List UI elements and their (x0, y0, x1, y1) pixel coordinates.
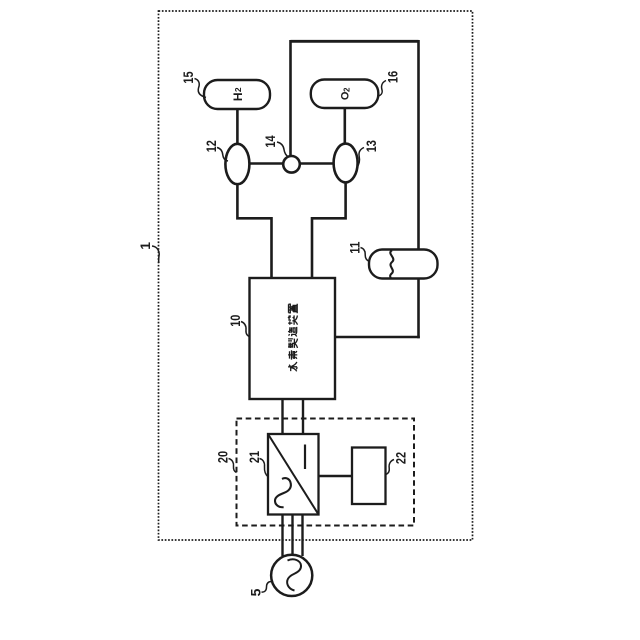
tank 16 (O2 tank) (311, 80, 379, 109)
H2 text (231, 87, 245, 101)
wire: separator 13 down, elbow left, down to electrolyzer 10 (312, 182, 346, 278)
system boundary box 1 (dotted) (159, 11, 473, 540)
separator 12 (ellipse) (225, 144, 249, 184)
liquid level wavy line in tank 11 (390, 250, 393, 278)
dc symbol (bar) (304, 445, 306, 470)
label 11 (347, 241, 363, 253)
wire: top horizontal (291, 40, 419, 43)
svg-text:11: 11 (347, 241, 363, 253)
leader for label 14 (277, 142, 289, 157)
controller 22 (352, 448, 386, 505)
label 20 (215, 451, 231, 463)
svg-text:16: 16 (385, 71, 401, 83)
label 22 (393, 452, 409, 464)
wire: right vertical from top wire to tank 11 (417, 40, 420, 250)
char 素 (288, 350, 297, 359)
leader for label 5 (262, 582, 272, 593)
svg-text:20: 20 (215, 451, 231, 463)
label 13 (363, 140, 379, 152)
svg-text:14: 14 (262, 135, 278, 147)
wire: converter 21 to controller 22 (319, 475, 353, 477)
svg-text:1: 1 (137, 242, 153, 250)
label 12 (203, 140, 219, 152)
leader for label 11 (361, 248, 370, 262)
label 15 (180, 71, 196, 83)
svg-text:12: 12 (203, 140, 219, 152)
svg-text:2: 2 (343, 87, 352, 92)
separator 13 (ellipse) (334, 144, 358, 183)
leader for label 20 (229, 459, 237, 473)
wire: elbow to electrolyzer 10 right edge (335, 336, 420, 339)
electrolyzer box 10 (hydrogen production device) (250, 278, 336, 399)
wire: tank 11 bottom to elbow (417, 279, 420, 339)
label 14 (262, 135, 278, 147)
svg-text:10: 10 (227, 314, 243, 326)
leader for label 22 (386, 460, 394, 475)
label 10 (227, 314, 243, 326)
leader for label 15 (195, 79, 207, 98)
char 装 (288, 315, 297, 325)
valve 14 (small circle) (283, 156, 300, 173)
leader for label 12 (217, 148, 228, 162)
wire: H2 tank to separator 12 (236, 109, 239, 144)
leader for label 13 (357, 148, 364, 168)
svg-text:13: 13 (363, 140, 379, 152)
label 21 (246, 451, 262, 463)
leader for label 21 (260, 459, 269, 478)
label 5 (248, 588, 264, 596)
kanji text (hydrogen production device) drawn as strokes, rotated (288, 304, 297, 372)
label 16 (385, 71, 401, 83)
svg-text:22: 22 (393, 452, 409, 464)
char 製 (288, 339, 297, 348)
ac source 5 (circle) (271, 555, 312, 596)
power unit boundary box 20 (dashed) (237, 419, 415, 526)
leader for label 1 (152, 246, 159, 263)
tank 15 (H2 tank) (204, 80, 270, 109)
char 水 (leftmost in rotated frame = bottom on page) (288, 362, 297, 371)
wire: separator 12 to valve 14 (249, 162, 284, 165)
svg-text:21: 21 (246, 451, 262, 463)
O2 text (340, 87, 352, 100)
char 置 (288, 304, 297, 314)
wire: left vertical from top wire to valve 14 (289, 40, 292, 156)
sine symbol in source 5 (287, 559, 301, 590)
ac symbol (sine) (275, 478, 291, 507)
label 1 (137, 242, 153, 250)
char 造 (288, 327, 297, 337)
ac wires: converter 21 to source 5 (3-phase) (281, 515, 283, 557)
svg-text:2: 2 (233, 87, 243, 92)
leader for label 16 (378, 81, 387, 97)
converter diagonal (268, 434, 319, 515)
wire: valve 14 to separator 13 (300, 162, 335, 165)
wire: O2 tank to separator 13 (343, 108, 346, 144)
svg-text:15: 15 (180, 71, 196, 83)
converter 21 (AC/DC) (268, 434, 319, 515)
wire: separator 12 down, elbow right, down to electrolyzer 10 (237, 184, 271, 278)
leader for label 10 (241, 322, 250, 338)
tank 11 (water tank) (369, 250, 438, 279)
svg-text:H: H (231, 92, 245, 101)
dc wires: electrolyzer 10 to converter 21 (281, 399, 283, 434)
svg-text:5: 5 (248, 588, 264, 596)
